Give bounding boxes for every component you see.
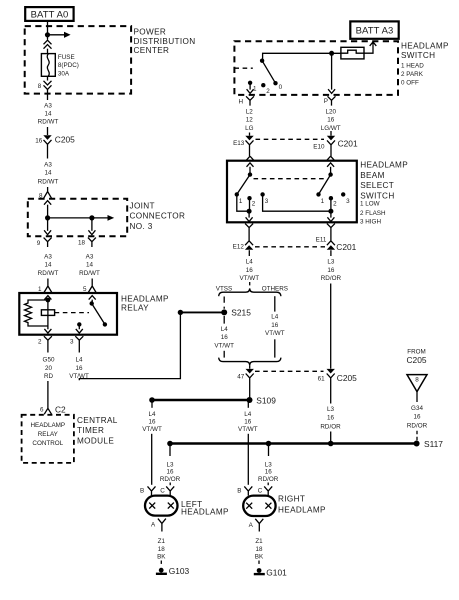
svg-text:VT/WT: VT/WT	[214, 342, 234, 349]
svg-text:L3: L3	[265, 461, 273, 468]
connector C205 pin 47	[246, 365, 254, 378]
svg-text:16: 16	[244, 419, 252, 426]
pin: right headlamp A	[255, 519, 263, 532]
svg-text:2: 2	[38, 339, 42, 346]
off-page connector triangle	[407, 375, 427, 402]
svg-text:C2: C2	[55, 405, 66, 415]
svg-text:16: 16	[75, 365, 83, 372]
svg-text:RD/OR: RD/OR	[160, 476, 181, 483]
svg-text:RD/OR: RD/OR	[258, 476, 279, 483]
node: RD/OR feed dot	[328, 441, 334, 447]
pin: left headlamp A	[158, 519, 166, 532]
left headlamp body	[145, 496, 178, 516]
wire: right output drop	[327, 211, 334, 221]
pin: beam select top right	[327, 156, 335, 167]
wire: feed arrow to other circuits	[48, 32, 71, 38]
label: circuit G50 20 RD	[43, 357, 55, 380]
headlamp switch wiper	[260, 59, 278, 86]
wire: right B drop	[247, 402, 249, 408]
wire: 61 to bus	[330, 378, 332, 403]
svg-text:LG: LG	[245, 125, 254, 132]
svg-text:VT/WT: VT/WT	[238, 426, 258, 433]
pin: headlamp switch P	[328, 96, 336, 105]
svg-text:L3: L3	[327, 258, 335, 265]
node: joint connector junction A	[45, 215, 50, 220]
pin: relay pin 5	[88, 279, 96, 300]
svg-text:L4: L4	[244, 411, 252, 418]
svg-text:1 HEAD: 1 HEAD	[401, 63, 424, 70]
label: circuit L3 16 RD/OR (right C)	[258, 461, 279, 483]
svg-text:B: B	[237, 487, 241, 494]
svg-text:S109: S109	[256, 395, 276, 405]
svg-text:2: 2	[333, 201, 337, 208]
label: circuit L4 16 VT/WT (left B)	[142, 411, 162, 433]
label: POWER DISTRIBUTION CENTER	[134, 28, 196, 56]
splice S109	[247, 397, 253, 403]
svg-text:16: 16	[271, 322, 279, 329]
svg-text:L20: L20	[325, 108, 336, 115]
svg-text:S117: S117	[424, 439, 443, 449]
headlamp relay box	[19, 293, 117, 335]
wire: left contact 1 and 2 to output	[237, 194, 250, 211]
label: circuit L3 16 RD/OR (C205 to bus)	[320, 406, 341, 430]
svg-text:BEAM: BEAM	[360, 171, 385, 180]
wire: left C drop	[169, 444, 171, 457]
label: CENTRAL TIMER MODULE	[77, 416, 118, 446]
svg-text:14: 14	[44, 170, 52, 177]
label: RIGHT HEADLAMP	[278, 495, 326, 515]
headlamp switch dashed box	[234, 41, 398, 95]
wire: joint connector bus with arrow	[48, 215, 115, 221]
svg-text:SWITCH: SWITCH	[401, 51, 435, 60]
label: circuit L4 16 VT/WT (relay pin 3)	[69, 357, 89, 380]
svg-text:61: 61	[318, 375, 326, 382]
wire: switch feed bus	[263, 53, 341, 60]
pin: relay pin 2	[44, 336, 52, 345]
node: PDC feed junction	[45, 32, 50, 37]
svg-text:HEADLAMP: HEADLAMP	[360, 160, 408, 169]
svg-text:MODULE: MODULE	[77, 436, 114, 445]
svg-text:G103: G103	[169, 566, 190, 576]
svg-text:16: 16	[413, 413, 421, 420]
svg-text:BATT A0: BATT A0	[31, 10, 69, 21]
svg-text:A3: A3	[44, 161, 52, 168]
pin: relay pin 1	[44, 279, 52, 300]
svg-text:Z1: Z1	[158, 538, 166, 545]
connector C205 dashed link	[255, 370, 324, 372]
pin: joint connector pin 9	[44, 230, 52, 247]
svg-text:CENTRAL: CENTRAL	[77, 416, 118, 425]
options bracket top	[219, 288, 281, 296]
svg-text:L4: L4	[221, 326, 229, 333]
label: circuit L2 12 LG	[245, 108, 254, 132]
svg-text:0 OFF: 0 OFF	[401, 80, 419, 87]
svg-text:6: 6	[40, 406, 44, 413]
svg-text:G50: G50	[43, 357, 55, 364]
svg-text:C205: C205	[55, 135, 75, 145]
relay coil winding	[25, 300, 48, 326]
svg-text:1 LOW: 1 LOW	[360, 200, 380, 207]
battery feed box BATT A3	[350, 21, 398, 38]
svg-text:E11: E11	[316, 237, 327, 244]
wire: headlamp bus	[170, 442, 417, 444]
svg-text:L4: L4	[148, 411, 156, 418]
node: left C drop dot	[167, 441, 173, 447]
wire stub to fuse	[47, 49, 49, 54]
wire: junction to splice S215	[180, 311, 221, 313]
svg-text:L4: L4	[271, 313, 279, 320]
svg-text:RELAY: RELAY	[38, 431, 59, 438]
connector C201 pin E12	[245, 241, 253, 250]
node: P branch junction	[329, 51, 334, 56]
fuse holder clip top	[44, 40, 52, 49]
wire: joint connector right drop	[91, 218, 93, 231]
label: circuit L4 16 VT/WT (right B)	[238, 411, 258, 433]
svg-text:14: 14	[44, 111, 52, 118]
svg-text:1: 1	[239, 198, 243, 205]
svg-text:VT/WT: VT/WT	[240, 275, 260, 282]
svg-text:RD/WT: RD/WT	[79, 270, 100, 277]
label: FUSE 8(PDC) 30A	[58, 54, 79, 78]
wire: P contact drop	[328, 53, 335, 93]
svg-text:16: 16	[327, 117, 335, 124]
svg-text:RD/OR: RD/OR	[407, 422, 428, 429]
pin: beam select top left	[246, 156, 254, 167]
svg-text:G101: G101	[266, 567, 287, 577]
connector C201 pin E13	[245, 136, 253, 145]
right headlamp body	[243, 496, 275, 516]
contact 1 (HEAD)	[247, 81, 254, 94]
svg-text:18: 18	[158, 546, 166, 553]
wire: right B drop lower	[247, 434, 249, 485]
svg-text:RD/WT: RD/WT	[38, 270, 59, 277]
wire: E10 to beam select	[330, 145, 332, 156]
svg-text:18: 18	[78, 240, 86, 247]
connector C205 pin 16	[43, 135, 51, 144]
svg-text:3: 3	[70, 339, 74, 346]
contact 2 (PARK)	[261, 83, 265, 87]
svg-text:SELECT: SELECT	[360, 181, 394, 190]
svg-text:RD/OR: RD/OR	[320, 424, 341, 431]
svg-text:16: 16	[327, 267, 335, 274]
svg-text:C: C	[160, 487, 165, 494]
wire stub above E12	[248, 233, 250, 241]
wire stub below E12	[248, 250, 250, 256]
svg-text:DISTRIBUTION: DISTRIBUTION	[134, 37, 196, 46]
label: circuit L4 16 VT/WT (VTSS)	[214, 326, 234, 349]
svg-text:47: 47	[237, 373, 245, 380]
battery feed box BATT A0	[25, 7, 73, 21]
svg-text:HEADLAMP: HEADLAMP	[401, 42, 449, 51]
node: left output junction	[247, 209, 252, 214]
svg-text:RD/WT: RD/WT	[38, 119, 59, 126]
relay mechanical link dashed	[55, 312, 89, 314]
pin: CTM C2 pin 6	[44, 405, 51, 415]
wire: left output drop	[246, 211, 253, 221]
svg-text:9: 9	[37, 240, 41, 247]
svg-text:2 FLASH: 2 FLASH	[360, 210, 386, 217]
svg-text:E13: E13	[233, 140, 245, 147]
pin: beam select bottom left	[245, 224, 253, 233]
svg-text:B: B	[140, 487, 144, 494]
VTSS branch dashed wire	[223, 297, 225, 324]
svg-text:POWER: POWER	[134, 28, 167, 37]
svg-text:C205: C205	[337, 373, 357, 383]
svg-text:L4: L4	[75, 357, 83, 364]
relay contact to pin 3	[76, 322, 83, 333]
svg-text:HEADLAMP: HEADLAMP	[181, 507, 229, 516]
label: JOINT CONNECTOR NO. 3	[130, 201, 186, 231]
wire: 47 to S109	[249, 378, 251, 397]
label: circuit A3 14 RD/WT (lower)	[38, 161, 59, 185]
splice S117	[414, 441, 420, 447]
dashed stub to S117	[416, 431, 418, 441]
svg-text:20: 20	[45, 365, 53, 372]
label: FROM C205	[406, 349, 426, 366]
svg-text:A3: A3	[86, 254, 94, 261]
fuse holder clip bottom	[44, 76, 52, 89]
svg-text:3: 3	[265, 198, 269, 205]
svg-text:16: 16	[221, 334, 229, 341]
pin: left headlamp C	[166, 486, 174, 495]
VTSS branch dashed wire lower	[223, 351, 225, 358]
central timer module dashed box	[22, 415, 74, 463]
pin: left headlamp B	[148, 486, 156, 495]
pin: relay pin 3	[75, 336, 83, 345]
svg-text:12: 12	[246, 117, 254, 124]
svg-text:VT/WT: VT/WT	[265, 330, 285, 337]
node: right output junction	[328, 209, 333, 214]
node: corner junction dot	[178, 310, 183, 315]
svg-text:A3: A3	[44, 102, 52, 109]
pin: right headlamp C	[264, 486, 272, 495]
left contacts 1 2 3	[235, 192, 269, 207]
label: circuit L4 16 VT/WT (E12)	[240, 258, 260, 282]
wire: right C drop	[268, 444, 270, 457]
label: circuit A3 14 RD/WT (relay pin5 col)	[79, 254, 100, 277]
svg-text:E10: E10	[313, 143, 325, 150]
label: circuit Z1 18 BK (right)	[255, 538, 264, 561]
dashed stub above options bracket	[249, 282, 251, 288]
svg-text:16: 16	[265, 469, 273, 476]
pin: joint connector pin 18	[88, 230, 96, 247]
svg-text:A3: A3	[44, 254, 52, 261]
fuse F8 (PDC) 30A	[41, 54, 55, 77]
svg-text:CONTROL: CONTROL	[32, 440, 63, 447]
svg-text:RELAY: RELAY	[121, 303, 149, 312]
ground G103	[156, 568, 167, 574]
right contacts 1 2 3	[316, 192, 350, 207]
label: circuit A3 14 RD/WT (relay pin1 col)	[38, 254, 59, 277]
wire: relay pin 3 to S215	[79, 312, 180, 380]
svg-text:VT/WT: VT/WT	[142, 426, 162, 433]
relay switch blade	[90, 300, 108, 327]
svg-text:CONNECTOR: CONNECTOR	[130, 212, 186, 221]
svg-text:BK: BK	[157, 554, 166, 561]
wire stub to bus	[330, 432, 332, 443]
svg-text:16: 16	[35, 137, 43, 144]
wire: right C stub	[267, 483, 269, 486]
svg-text:HEADLAMP: HEADLAMP	[121, 294, 169, 303]
label: circuit G34 16 RD/OR	[407, 405, 428, 429]
svg-text:L3: L3	[327, 406, 335, 413]
connector C201 dashed link	[256, 138, 325, 140]
svg-text:HEADLAMP: HEADLAMP	[278, 506, 326, 515]
svg-text:2 PARK: 2 PARK	[401, 71, 424, 78]
right dimmer switch blade	[319, 167, 333, 195]
svg-text:14: 14	[44, 262, 52, 269]
svg-text:FUSE: FUSE	[58, 54, 75, 61]
wire: breaker to BATT A3 arrow	[364, 42, 376, 53]
switch mechanical link dashed	[234, 67, 252, 69]
svg-text:H: H	[238, 98, 243, 105]
svg-text:8: 8	[415, 376, 419, 383]
svg-text:1: 1	[321, 198, 325, 205]
relay coil actuator box	[41, 310, 54, 316]
svg-text:L4: L4	[246, 258, 254, 265]
svg-text:1: 1	[253, 86, 257, 93]
node: relay coil junction	[46, 298, 51, 303]
options bracket bottom	[219, 358, 281, 366]
label: HEADLAMP SWITCH	[401, 42, 449, 87]
svg-text:16: 16	[246, 267, 254, 274]
label: HEADLAMP BEAM SELECT SWITCH	[360, 160, 408, 225]
OTHERS branch wire	[274, 296, 276, 311]
svg-text:C205: C205	[406, 355, 426, 365]
wire: left C stub	[169, 483, 171, 486]
svg-text:8: 8	[38, 83, 42, 90]
node: left branch dot	[149, 397, 155, 403]
wire: S109 branch line	[152, 399, 250, 401]
wire: relay pin 1 to pin 2	[44, 300, 51, 334]
svg-text:L3: L3	[166, 461, 174, 468]
label: circuit A3 14 RD/WT (upper)	[38, 102, 59, 125]
label: HEADLAMP RELAY	[121, 294, 169, 312]
svg-text:0: 0	[279, 84, 283, 91]
svg-text:16: 16	[327, 415, 335, 422]
connector C201 pin E11	[327, 233, 335, 250]
svg-text:16: 16	[166, 469, 174, 476]
svg-text:S215: S215	[231, 308, 251, 318]
label: LEFT HEADLAMP	[181, 500, 229, 517]
svg-text:BK: BK	[255, 554, 264, 561]
svg-text:30A: 30A	[58, 70, 70, 77]
wire: E13 to beam select	[249, 145, 251, 156]
svg-text:3: 3	[346, 198, 350, 205]
wire: left B drop lower	[151, 434, 153, 485]
wire: left B drop	[151, 400, 153, 408]
wire stub above E13	[249, 133, 251, 136]
svg-text:Z1: Z1	[255, 538, 263, 545]
ground G101	[254, 568, 265, 574]
dashed stub to ground left	[160, 561, 162, 567]
pin: joint connector pin 8	[44, 187, 52, 205]
svg-text:HEADLAMP: HEADLAMP	[30, 422, 65, 429]
svg-text:8(PDC): 8(PDC)	[58, 62, 79, 69]
svg-text:RD/WT: RD/WT	[38, 179, 59, 186]
joint connector no. 3 dashed box	[28, 199, 127, 236]
connector C205 pin 61	[327, 284, 335, 378]
svg-text:RD: RD	[44, 373, 54, 380]
wire: C205 to joint connector	[47, 145, 49, 159]
svg-text:C: C	[258, 488, 263, 495]
label: circuit L20 16 LG/WT	[321, 108, 341, 132]
node: joint connector junction B	[89, 215, 94, 220]
svg-text:2: 2	[252, 201, 256, 208]
circuit breaker	[341, 47, 364, 59]
pin: beam select bottom right	[327, 224, 335, 233]
svg-text:C201: C201	[338, 138, 358, 148]
label: circuit L3 16 RD/OR (left C)	[160, 461, 181, 483]
svg-text:C201: C201	[336, 242, 356, 252]
svg-text:CENTER: CENTER	[134, 46, 170, 55]
splice S215	[221, 309, 227, 315]
dashed stub to ground right	[258, 561, 260, 567]
wire: BATT A0 to fuse holder	[47, 21, 49, 40]
svg-text:LG/WT: LG/WT	[321, 125, 341, 132]
svg-text:18: 18	[255, 546, 263, 553]
power distribution center dashed box	[25, 26, 131, 94]
svg-text:L2: L2	[246, 108, 254, 115]
svg-text:E12: E12	[233, 244, 245, 251]
wire: joint connector internal left drop	[47, 205, 49, 231]
svg-text:RIGHT: RIGHT	[278, 495, 305, 504]
wire: fuse to C205	[47, 89, 49, 100]
label: circuit Z1 18 BK (left)	[157, 538, 166, 561]
svg-text:G34: G34	[411, 405, 423, 412]
wire: relay pin 2 to CTM	[47, 346, 49, 405]
pin: right headlamp B	[244, 486, 252, 495]
pin: headlamp switch H	[246, 96, 254, 105]
label: circuit L3 16 RD/OR (E11)	[321, 258, 342, 282]
headlamp beam select switch box	[227, 161, 357, 223]
wire: left contact 3 to right contact 2	[263, 194, 331, 211]
svg-text:RD/OR: RD/OR	[321, 275, 342, 282]
svg-text:14: 14	[86, 262, 94, 269]
wire stub above C205	[47, 127, 49, 135]
svg-text:16: 16	[148, 419, 156, 426]
svg-text:NO. 3: NO. 3	[130, 222, 153, 231]
dimmer mechanical link dashed	[254, 178, 328, 180]
wire stub below E11	[330, 250, 332, 256]
svg-text:BATT A3: BATT A3	[356, 26, 394, 37]
connector C201 pin E10	[327, 131, 335, 145]
svg-text:TIMER: TIMER	[77, 426, 104, 435]
svg-text:2: 2	[266, 88, 270, 95]
svg-text:JOINT: JOINT	[130, 201, 155, 210]
label: circuit L4 16 VT/WT (OTHERS)	[265, 313, 285, 337]
connector C201 dashed link lower	[255, 246, 325, 248]
svg-text:3 HIGH: 3 HIGH	[360, 219, 381, 226]
left dimmer switch blade	[237, 167, 252, 195]
node: right C drop dot	[266, 441, 272, 447]
OTHERS branch wire lower	[274, 339, 276, 357]
svg-text:SWITCH: SWITCH	[360, 192, 394, 201]
label: HEADLAMP RELAY CONTROL	[30, 422, 65, 447]
svg-text:P: P	[324, 98, 328, 105]
